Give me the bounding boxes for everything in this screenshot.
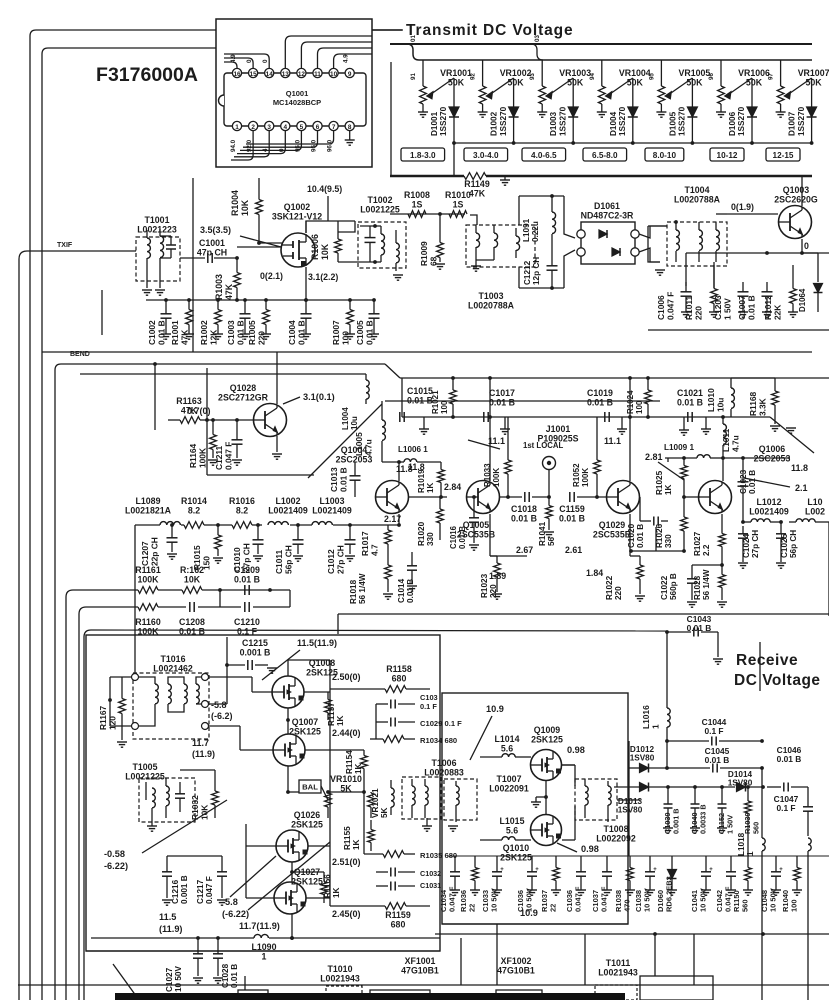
capacitor C1152 bbox=[718, 803, 727, 805]
svg-text:11.7(11.9): 11.7(11.9) bbox=[239, 921, 280, 931]
wire bbox=[338, 221, 355, 232]
wire bbox=[628, 741, 630, 856]
svg-text:50K: 50K bbox=[567, 77, 584, 87]
wire bbox=[787, 78, 812, 96]
resistor R1005 bbox=[265, 300, 267, 310]
svg-text:D1002: D1002 bbox=[490, 111, 499, 136]
svg-text:1K: 1K bbox=[426, 483, 435, 493]
junction bbox=[196, 936, 200, 940]
wire bbox=[828, 522, 829, 616]
wire bbox=[240, 236, 281, 247]
wire bbox=[372, 29, 403, 31]
net label BAL bbox=[299, 780, 321, 793]
resistor R1011 bbox=[713, 265, 715, 289]
svg-text:1K: 1K bbox=[354, 763, 363, 774]
wire bbox=[564, 196, 575, 238]
wire bbox=[429, 78, 454, 96]
wire bbox=[727, 78, 752, 96]
capacitor C1036 bbox=[527, 871, 537, 873]
wire bbox=[684, 496, 700, 498]
wire bbox=[802, 252, 818, 254]
svg-text:L0021223: L0021223 bbox=[137, 224, 177, 234]
svg-text:0.01 B: 0.01 B bbox=[364, 320, 374, 345]
svg-text:+: + bbox=[535, 867, 539, 873]
svg-text:56p CH: 56p CH bbox=[789, 530, 798, 558]
wire bbox=[398, 514, 400, 525]
svg-text:10 50V: 10 50V bbox=[769, 888, 778, 912]
junction bbox=[235, 298, 239, 302]
svg-text:1st LOCAL: 1st LOCAL bbox=[523, 441, 564, 450]
svg-text:13: 13 bbox=[282, 71, 290, 78]
wire bbox=[338, 261, 360, 263]
pin 3 Q1001 bbox=[265, 121, 274, 130]
ground bbox=[419, 428, 429, 430]
pin 8 Q1001 bbox=[345, 121, 354, 130]
svg-text:560p B: 560p B bbox=[669, 573, 678, 600]
svg-text:47K: 47K bbox=[469, 188, 486, 198]
junction bbox=[211, 418, 215, 422]
ground bbox=[345, 555, 355, 557]
ground bbox=[655, 269, 665, 271]
svg-text:L1091: L1091 bbox=[522, 218, 531, 242]
svg-text:Q1001: Q1001 bbox=[286, 89, 309, 98]
wire bbox=[41, 54, 43, 1000]
wire bbox=[519, 195, 564, 197]
potentiometer VR1002 bbox=[482, 60, 484, 86]
wire bbox=[306, 221, 355, 233]
svg-text:11.8: 11.8 bbox=[791, 463, 808, 473]
wire bbox=[807, 861, 809, 1000]
junction bbox=[628, 415, 632, 419]
svg-text:0.98: 0.98 bbox=[581, 844, 599, 854]
svg-text:D1014: D1014 bbox=[728, 770, 753, 779]
wire bbox=[27, 250, 136, 252]
junction bbox=[170, 523, 174, 527]
capacitor C1005 bbox=[369, 313, 380, 315]
svg-text:220: 220 bbox=[693, 306, 703, 320]
svg-text:(11.9): (11.9) bbox=[159, 924, 183, 934]
ground bbox=[743, 889, 753, 891]
junction bbox=[646, 415, 650, 419]
svg-text:R1006: R1006 bbox=[310, 234, 320, 260]
svg-text:1K: 1K bbox=[664, 484, 673, 495]
junction bbox=[218, 588, 222, 592]
ground bbox=[701, 428, 711, 430]
resistor R1039 bbox=[747, 787, 749, 801]
svg-text:C1027: C1027 bbox=[165, 967, 174, 992]
wire bbox=[237, 246, 282, 248]
wire bbox=[716, 213, 727, 215]
ground bbox=[500, 428, 510, 430]
ground bbox=[450, 889, 460, 891]
svg-text:95.0: 95.0 bbox=[294, 139, 301, 152]
capacitor C1040 bbox=[691, 803, 700, 805]
svg-text:Transmit DC Voltage: Transmit DC Voltage bbox=[406, 22, 574, 39]
pin 12 Q1001 bbox=[297, 68, 306, 77]
svg-text:12p CH: 12p CH bbox=[532, 257, 541, 285]
junction bbox=[225, 663, 229, 667]
svg-text:120: 120 bbox=[107, 716, 117, 730]
svg-text:1SS270: 1SS270 bbox=[737, 106, 746, 136]
wire bbox=[489, 378, 491, 481]
wire bbox=[801, 239, 803, 253]
diode D1060 bbox=[668, 870, 677, 879]
ground bbox=[717, 601, 727, 603]
ground bbox=[738, 562, 748, 564]
wire bbox=[306, 897, 330, 899]
junction bbox=[721, 415, 725, 419]
svg-text:L0021225: L0021225 bbox=[125, 771, 165, 781]
svg-text:+: + bbox=[653, 867, 657, 873]
svg-text:10 50V: 10 50V bbox=[490, 888, 499, 912]
junction bbox=[674, 220, 678, 224]
wire bbox=[86, 950, 440, 952]
wire bbox=[648, 225, 667, 227]
svg-text:50K: 50K bbox=[806, 77, 823, 87]
wire bbox=[54, 370, 56, 1000]
junction bbox=[512, 141, 516, 145]
junction bbox=[665, 739, 669, 743]
capacitor C1038 bbox=[645, 871, 655, 873]
wire bbox=[639, 497, 641, 521]
svg-text:95: 95 bbox=[648, 73, 655, 80]
wire bbox=[337, 614, 339, 634]
junction bbox=[438, 212, 442, 216]
wire bbox=[305, 749, 364, 751]
capacitor C1203 bbox=[738, 291, 749, 293]
wire bbox=[287, 660, 289, 676]
wire bbox=[36, 29, 216, 31]
wire bbox=[545, 780, 547, 815]
svg-text:C103: C103 bbox=[420, 693, 438, 702]
svg-text:0.1 F: 0.1 F bbox=[420, 702, 437, 711]
wire bbox=[629, 378, 631, 481]
svg-text:L0022091: L0022091 bbox=[489, 783, 529, 793]
wire bbox=[654, 934, 656, 976]
wire bbox=[248, 842, 330, 910]
svg-text:47K: 47K bbox=[224, 283, 234, 300]
svg-text:MC14028BCP: MC14028BCP bbox=[273, 98, 321, 107]
svg-text:8.2: 8.2 bbox=[188, 505, 200, 515]
junction bbox=[765, 251, 769, 255]
wire bbox=[385, 400, 660, 402]
svg-text:0.01 B: 0.01 B bbox=[511, 513, 537, 523]
ground bbox=[142, 289, 152, 291]
svg-text:1.89: 1.89 bbox=[489, 571, 506, 581]
wire bbox=[667, 458, 669, 462]
pin 11 Q1001 bbox=[313, 68, 322, 77]
svg-text:1 50V: 1 50V bbox=[722, 298, 732, 320]
ground bbox=[770, 425, 780, 427]
ground bbox=[167, 553, 177, 555]
wire bbox=[234, 131, 269, 157]
svg-text:D1013: D1013 bbox=[618, 797, 643, 806]
wire bbox=[562, 764, 575, 766]
wire bbox=[291, 914, 293, 938]
wire bbox=[655, 527, 657, 551]
svg-text:10K: 10K bbox=[320, 243, 330, 260]
svg-text:92: 92 bbox=[470, 73, 477, 80]
svg-text:2SC2712GR: 2SC2712GR bbox=[218, 392, 269, 402]
wire bbox=[84, 630, 91, 637]
ground bbox=[193, 977, 203, 979]
svg-text:10 50V: 10 50V bbox=[525, 888, 534, 912]
svg-text:560: 560 bbox=[751, 822, 760, 834]
ground bbox=[435, 263, 445, 265]
wire bbox=[640, 976, 713, 1000]
svg-text:10: 10 bbox=[330, 71, 338, 78]
svg-text:47G10B1: 47G10B1 bbox=[497, 965, 535, 975]
ground bbox=[393, 274, 403, 276]
svg-text:56 1/4W: 56 1/4W bbox=[702, 569, 711, 600]
wire bbox=[305, 221, 307, 233]
svg-text:4.9: 4.9 bbox=[343, 54, 350, 63]
svg-text:11.5: 11.5 bbox=[159, 912, 176, 922]
svg-text:0.001 B: 0.001 B bbox=[180, 875, 189, 904]
wire bbox=[134, 525, 136, 677]
svg-text:4.0-6.5: 4.0-6.5 bbox=[531, 151, 557, 160]
junction bbox=[373, 224, 377, 228]
wire bbox=[224, 54, 269, 68]
svg-text:12K: 12K bbox=[208, 330, 218, 345]
svg-text:5.6: 5.6 bbox=[506, 825, 518, 835]
svg-text:R1022: R1022 bbox=[605, 575, 614, 600]
label Transmit DC Voltage bbox=[372, 29, 402, 31]
wire bbox=[113, 964, 139, 1000]
wire bbox=[246, 131, 334, 144]
wire bbox=[207, 474, 314, 476]
wire bbox=[608, 78, 633, 96]
svg-text:0.01 B: 0.01 B bbox=[234, 574, 260, 584]
wire bbox=[692, 564, 722, 566]
capacitor C1007 bbox=[762, 291, 773, 293]
svg-text:2.51(0): 2.51(0) bbox=[332, 857, 361, 867]
wire bbox=[101, 290, 103, 335]
svg-text:C1031: C1031 bbox=[420, 881, 441, 890]
svg-text:-5.8: -5.8 bbox=[222, 897, 238, 907]
diode D1007 bbox=[811, 78, 813, 107]
svg-text:D1003: D1003 bbox=[549, 111, 558, 136]
ground bbox=[213, 557, 223, 559]
svg-text:1 50V: 1 50V bbox=[725, 815, 734, 834]
wire bbox=[168, 419, 180, 421]
junction bbox=[682, 549, 686, 553]
svg-text:2.81: 2.81 bbox=[645, 452, 663, 462]
svg-text:ND487C2-3R: ND487C2-3R bbox=[581, 210, 634, 220]
diode D1006 bbox=[751, 78, 753, 107]
svg-text:0.01 B: 0.01 B bbox=[777, 754, 802, 764]
wire bbox=[308, 404, 382, 478]
ground VR1005 bbox=[656, 111, 666, 113]
svg-text:0.01 B: 0.01 B bbox=[746, 295, 756, 320]
junction bbox=[746, 785, 750, 789]
svg-text:0.01 B: 0.01 B bbox=[748, 470, 757, 494]
svg-text:1K: 1K bbox=[352, 839, 361, 850]
svg-text:R1004: R1004 bbox=[230, 190, 240, 216]
diode D1001 bbox=[453, 78, 455, 107]
svg-text:1: 1 bbox=[262, 951, 267, 961]
ground bbox=[776, 562, 786, 564]
wire bbox=[338, 613, 829, 615]
wire bbox=[30, 30, 36, 36]
wire bbox=[685, 253, 687, 286]
wire bbox=[83, 637, 85, 1000]
wire bbox=[390, 43, 812, 45]
ground bbox=[184, 333, 194, 335]
wire bbox=[629, 514, 631, 556]
svg-text:3.5(3.5): 3.5(3.5) bbox=[200, 225, 231, 235]
svg-text:5: 5 bbox=[300, 124, 304, 131]
svg-text:50K: 50K bbox=[686, 77, 703, 87]
capacitor C1034 bbox=[450, 871, 460, 873]
wire bbox=[276, 436, 278, 452]
svg-text:1K: 1K bbox=[332, 887, 341, 898]
capacitor C1041 bbox=[701, 871, 711, 873]
svg-text:1: 1 bbox=[650, 724, 660, 729]
svg-text:680: 680 bbox=[392, 673, 407, 683]
ground bbox=[602, 889, 612, 891]
wire bbox=[73, 589, 138, 591]
ground bbox=[645, 889, 655, 891]
svg-text:4.7u: 4.7u bbox=[363, 439, 373, 456]
wire bbox=[276, 352, 278, 404]
svg-text:0.01 B: 0.01 B bbox=[489, 397, 515, 407]
wire bbox=[66, 590, 73, 597]
wire bbox=[435, 933, 829, 935]
ground bbox=[792, 889, 802, 891]
svg-text:4.7u: 4.7u bbox=[730, 435, 740, 452]
junction bbox=[488, 415, 492, 419]
wire bbox=[245, 824, 247, 898]
net label 12-15 bbox=[766, 148, 800, 161]
wire bbox=[363, 792, 365, 854]
svg-text:0.0033 B: 0.0033 B bbox=[698, 804, 707, 834]
svg-text:+: + bbox=[709, 867, 713, 873]
junction bbox=[721, 456, 725, 460]
wire bbox=[548, 470, 550, 497]
svg-text:47K: 47K bbox=[181, 405, 198, 415]
wire bbox=[86, 606, 138, 608]
svg-text:L1009 1: L1009 1 bbox=[664, 443, 694, 452]
wire bbox=[246, 897, 274, 899]
svg-text:2SK125: 2SK125 bbox=[291, 819, 323, 829]
svg-text:D1064: D1064 bbox=[798, 288, 807, 312]
svg-text:10 50V: 10 50V bbox=[699, 888, 708, 912]
svg-text:12-15: 12-15 bbox=[773, 151, 794, 160]
svg-text:50K: 50K bbox=[448, 77, 465, 87]
svg-text:10K: 10K bbox=[240, 199, 250, 216]
svg-text:-5.8: -5.8 bbox=[211, 700, 227, 710]
junction bbox=[452, 141, 456, 145]
wire bbox=[231, 131, 253, 160]
pin 1 Q1001 bbox=[232, 121, 241, 130]
junction bbox=[286, 790, 290, 794]
svg-text:100K: 100K bbox=[197, 448, 207, 468]
svg-text:(11.9): (11.9) bbox=[192, 749, 215, 759]
ground bbox=[701, 889, 711, 891]
wire bbox=[490, 555, 527, 557]
svg-text:R1027: R1027 bbox=[693, 531, 702, 556]
junction bbox=[750, 141, 754, 145]
ground VR1001 bbox=[418, 111, 428, 113]
wire bbox=[731, 377, 775, 379]
wire bbox=[318, 48, 373, 68]
svg-text:03: 03 bbox=[534, 35, 541, 42]
resistor R1036 bbox=[474, 856, 476, 868]
pin 7 Q1001 bbox=[329, 121, 338, 130]
wire bbox=[562, 764, 575, 766]
ground bbox=[679, 429, 689, 431]
ground bbox=[576, 889, 586, 891]
junction bbox=[451, 376, 455, 380]
svg-text:22K: 22K bbox=[772, 305, 782, 320]
svg-text:11.7: 11.7 bbox=[192, 738, 209, 748]
wire bbox=[470, 215, 477, 225]
wire bbox=[468, 440, 500, 449]
wire bbox=[470, 716, 492, 760]
wire bbox=[448, 855, 829, 857]
ground bbox=[544, 531, 554, 533]
junction bbox=[571, 141, 575, 145]
svg-text:1.84: 1.84 bbox=[586, 568, 603, 578]
wire bbox=[18, 984, 829, 986]
wire bbox=[224, 62, 237, 68]
ground bbox=[717, 827, 727, 829]
svg-text:220: 220 bbox=[256, 331, 266, 345]
svg-text:1SS270: 1SS270 bbox=[618, 106, 627, 136]
wire bbox=[327, 196, 329, 221]
svg-text:R1028: R1028 bbox=[693, 575, 702, 600]
svg-text:-0.58: -0.58 bbox=[104, 849, 125, 859]
svg-text:0: 0 bbox=[804, 241, 809, 251]
ground bbox=[681, 311, 691, 313]
svg-text:9: 9 bbox=[348, 71, 352, 78]
svg-text:0.047 F: 0.047 F bbox=[223, 442, 233, 470]
resistor R1002 bbox=[217, 300, 219, 310]
svg-text:0(2.1): 0(2.1) bbox=[260, 271, 283, 281]
ground bbox=[690, 827, 700, 829]
svg-text:0.1 F: 0.1 F bbox=[776, 803, 795, 813]
svg-text:2.61: 2.61 bbox=[565, 545, 582, 555]
svg-text:RD6.2EB3: RD6.2EB3 bbox=[665, 876, 674, 912]
svg-text:8: 8 bbox=[348, 124, 352, 131]
ground pin 8 bbox=[349, 131, 351, 140]
svg-text:1SV80: 1SV80 bbox=[618, 806, 643, 815]
svg-text:Receive: Receive bbox=[736, 652, 798, 669]
capacitor C1004 bbox=[301, 313, 312, 315]
svg-text:100: 100 bbox=[635, 400, 644, 414]
svg-text:D1012: D1012 bbox=[630, 745, 655, 754]
svg-text:L0021409: L0021409 bbox=[312, 505, 352, 515]
pin 13 Q1001 bbox=[281, 68, 290, 77]
wire bbox=[727, 213, 778, 215]
svg-text:0.01 B: 0.01 B bbox=[406, 579, 415, 603]
potentiometer VR1007 bbox=[780, 60, 782, 86]
ground VR1006 bbox=[716, 111, 726, 113]
svg-text:4: 4 bbox=[284, 124, 288, 131]
wire bbox=[328, 791, 364, 793]
pin 10 Q1001 bbox=[329, 68, 338, 77]
wire bbox=[304, 691, 330, 693]
ground VR1007 bbox=[776, 111, 786, 113]
junction bbox=[472, 495, 476, 499]
svg-text:L1018: L1018 bbox=[737, 832, 746, 856]
svg-text:D1006: D1006 bbox=[728, 111, 737, 136]
wire bbox=[639, 226, 667, 238]
svg-text:C1028: C1028 bbox=[221, 963, 230, 988]
svg-text:27p CH: 27p CH bbox=[335, 545, 345, 574]
svg-text:L0021409: L0021409 bbox=[749, 506, 789, 516]
